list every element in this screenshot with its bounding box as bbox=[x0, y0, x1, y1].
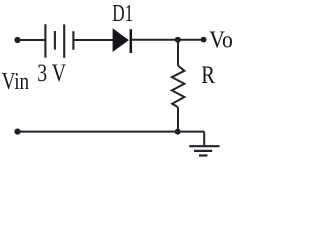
diode D1 bbox=[113, 28, 131, 53]
battery 3 V (two cells) bbox=[45, 24, 73, 58]
ground bbox=[189, 146, 219, 155]
wire: junction down to resistor bbox=[177, 40, 179, 66]
svg-text:Vin: Vin bbox=[2, 67, 30, 95]
wire: resistor down to bottom rail bbox=[177, 107, 179, 131]
node Vin top terminal bbox=[14, 37, 20, 43]
svg-text:3 V: 3 V bbox=[37, 59, 66, 87]
svg-text:D1: D1 bbox=[112, 1, 133, 26]
node bottom junction bbox=[175, 129, 181, 135]
resistor R bbox=[172, 66, 185, 108]
wire: battery to diode bbox=[73, 39, 113, 41]
node Vin bottom terminal bbox=[14, 129, 20, 135]
wire: rail corner down to ground bbox=[203, 132, 205, 147]
node Vo terminal bbox=[201, 37, 207, 43]
wire: diode to output terminal bbox=[131, 39, 204, 41]
wire top-left: Vin terminal to battery bbox=[18, 39, 45, 41]
svg-text:R: R bbox=[201, 61, 215, 88]
wire: bottom rail bbox=[18, 131, 205, 133]
node junction (diode / resistor / output) bbox=[175, 37, 181, 43]
svg-text:Vo: Vo bbox=[209, 26, 233, 52]
